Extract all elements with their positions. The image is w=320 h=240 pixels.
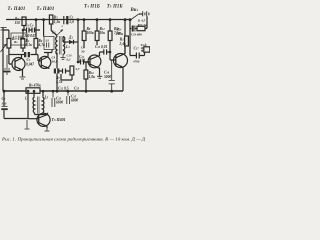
svg-text:Т1 П401: Т1 П401 (8, 7, 26, 12)
svg-text:390: 390 (1, 102, 7, 106)
svg-text:4,7к: 4,7к (38, 43, 45, 47)
svg-text:6800: 6800 (56, 101, 63, 105)
svg-text:Т3 П401: Т3 П401 (52, 117, 66, 122)
svg-text:0,1: 0,1 (67, 58, 72, 62)
svg-text:L4: L4 (24, 97, 29, 101)
svg-text:1,2к: 1,2к (54, 20, 60, 24)
svg-text:Д1: Д1 (68, 36, 73, 40)
svg-text:5,1к: 5,1к (26, 43, 32, 47)
svg-text:100к: 100к (87, 31, 94, 35)
svg-text:С12 0,5: С12 0,5 (58, 87, 69, 91)
svg-text:2,4к: 2,4к (119, 42, 126, 46)
svg-text:150: 150 (15, 21, 21, 25)
svg-text:0,01: 0,01 (79, 59, 85, 63)
svg-text:4,7к: 4,7к (55, 80, 62, 84)
svg-text:С7: С7 (27, 58, 31, 62)
svg-text:С17: С17 (134, 47, 140, 51)
svg-text:L1+100: L1+100 (12, 35, 23, 39)
svg-text:30,0: 30,0 (51, 59, 58, 63)
svg-text:4700: 4700 (132, 60, 140, 64)
svg-text:С5: С5 (70, 16, 74, 20)
svg-text:R5: R5 (54, 16, 58, 20)
svg-text:И2: И2 (13, 40, 18, 44)
svg-text:С13 0,01: С13 0,01 (95, 45, 107, 49)
svg-text:R16 2к: R16 2к (138, 23, 147, 27)
svg-text:4,7: 4,7 (74, 67, 79, 71)
svg-text:240к: 240к (115, 32, 123, 36)
svg-text:1,8к: 1,8к (89, 75, 95, 79)
svg-text:6800: 6800 (71, 99, 78, 103)
svg-text:+: + (61, 25, 63, 29)
svg-text:R9 470к: R9 470к (29, 84, 41, 88)
svg-text:L2: L2 (51, 31, 56, 35)
svg-text:Рис. 1. Принципиальная схема р: Рис. 1. Принципиальная схема радиоприемн… (1, 137, 145, 142)
svg-text:5000: 5000 (104, 75, 111, 79)
svg-text:Т5 П1Б: Т5 П1Б (107, 5, 123, 10)
svg-text:L5: L5 (44, 96, 49, 100)
svg-text:Т4 П1Б: Т4 П1Б (84, 5, 100, 10)
svg-text:Тлф: Тлф (141, 43, 148, 47)
svg-text:0,047: 0,047 (26, 63, 34, 67)
svg-text:С15: С15 (74, 87, 80, 91)
svg-text:Б 4,5: Б 4,5 (137, 18, 146, 22)
svg-text:С3 С4: С3 С4 (25, 24, 34, 28)
svg-text:С2: С2 (2, 97, 6, 101)
svg-text:5,0: 5,0 (70, 20, 75, 24)
svg-text:10к: 10к (100, 31, 106, 35)
svg-text:С18 680: С18 680 (131, 32, 142, 36)
svg-text:30: 30 (80, 49, 85, 53)
svg-text:L3: L3 (65, 45, 70, 49)
svg-text:R15: R15 (120, 38, 126, 42)
svg-text:С16: С16 (104, 71, 110, 75)
svg-text:Т2 П401: Т2 П401 (37, 7, 55, 12)
